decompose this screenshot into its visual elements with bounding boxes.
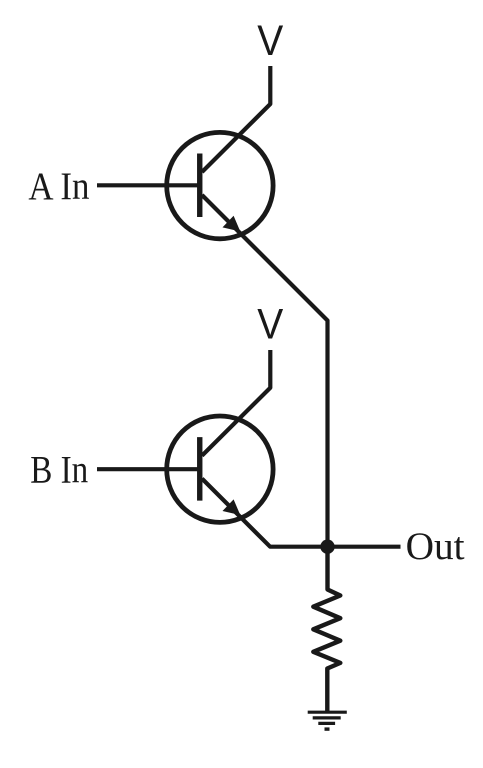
svg-text:V: V <box>257 301 283 349</box>
svg-text:A In: A In <box>28 165 89 208</box>
svg-text:V: V <box>257 17 283 65</box>
svg-text:Out: Out <box>406 525 465 568</box>
svg-text:B In: B In <box>30 449 88 492</box>
